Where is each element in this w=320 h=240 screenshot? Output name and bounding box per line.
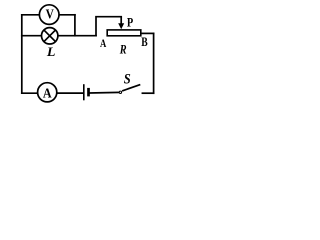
svg-text:A: A bbox=[43, 86, 52, 101]
svg-text:A: A bbox=[100, 38, 107, 50]
svg-text:S: S bbox=[124, 71, 131, 87]
wire step up to slider bbox=[96, 17, 121, 36]
svg-text:V: V bbox=[46, 7, 54, 22]
wire voltmeter drop to lamp line bbox=[74, 15, 76, 36]
ammeter A bbox=[38, 83, 57, 102]
lamp cross bbox=[44, 30, 55, 41]
battery negative plate bbox=[87, 88, 90, 97]
background bbox=[0, 0, 174, 105]
wire left rail bbox=[21, 15, 23, 93]
rheostat R body bbox=[107, 30, 141, 36]
wire ammeter to battery bbox=[57, 92, 83, 94]
voltmeter V bbox=[39, 5, 59, 25]
wire lamp line right bbox=[58, 35, 96, 37]
wire battery to switch bbox=[90, 91, 119, 94]
switch S blade bbox=[122, 85, 140, 91]
wire right rail bbox=[153, 33, 155, 93]
wire switch to right corner bbox=[142, 92, 153, 94]
switch S pivot bbox=[119, 91, 121, 93]
wire rheostat right terminal to rail bbox=[141, 32, 154, 34]
slider arrow P bbox=[118, 17, 124, 30]
wire voltmeter right bbox=[59, 14, 75, 16]
wire bottom left to ammeter bbox=[22, 92, 37, 94]
wire lamp line left bbox=[22, 35, 42, 37]
battery positive plate bbox=[83, 84, 85, 100]
svg-text:L: L bbox=[46, 45, 56, 59]
wire top-left to voltmeter bbox=[22, 14, 39, 16]
svg-text:P: P bbox=[127, 17, 133, 30]
svg-text:B: B bbox=[141, 36, 147, 49]
svg-text:R: R bbox=[119, 44, 127, 57]
lamp L bbox=[42, 28, 58, 44]
